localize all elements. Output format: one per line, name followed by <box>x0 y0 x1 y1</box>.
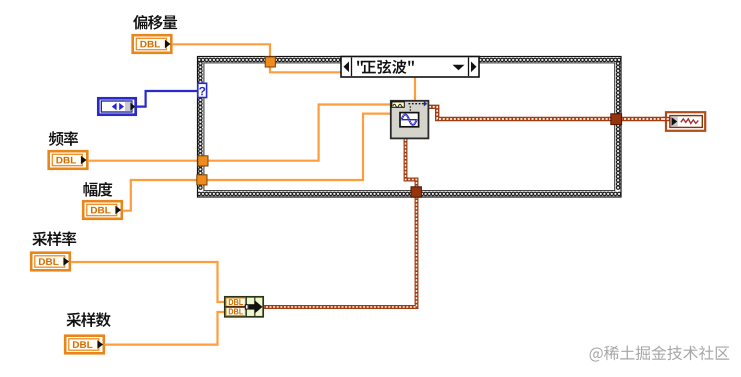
case structure border <box>197 56 622 198</box>
control 采样数 DBL <box>65 336 104 354</box>
wire 采样率 to bundle input <box>71 262 226 302</box>
case selector text "正弦波" <box>357 60 414 74</box>
control 幅度 DBL <box>83 201 122 219</box>
case selector label frame <box>341 57 479 78</box>
wire cluster bundle output to VI sampling-info input <box>264 139 417 307</box>
label 偏移量 <box>133 15 177 30</box>
wire waveform VI output to indicator <box>429 107 666 119</box>
control 偏移量 DBL <box>133 35 172 53</box>
label 采样数 <box>66 312 110 327</box>
tunnel 频率 (left border) <box>198 156 208 166</box>
wire 幅度 to left tunnel then to VI input <box>123 114 391 211</box>
label 幅度 <box>83 182 112 197</box>
label 频率 <box>49 131 78 146</box>
wire enum to case selector ? <box>137 91 198 107</box>
indicator waveform output <box>663 112 705 131</box>
tunnel 偏移量 (top border) <box>265 57 275 67</box>
label 采样率 <box>32 231 76 246</box>
tunnel 幅度 (left border) <box>197 175 207 185</box>
wire 采样数 to bundle input <box>105 312 226 345</box>
wire 频率 to left tunnel then to VI input <box>88 105 390 161</box>
control 频率 DBL <box>49 151 88 169</box>
VI sine signal generator <box>391 101 429 139</box>
bundle node (sample rate + samples) <box>225 297 263 317</box>
case selector terminal ? <box>198 83 207 97</box>
control 采样率 DBL <box>31 253 70 271</box>
control enum (signal type selector) <box>98 98 135 114</box>
watermark @稀土掘金技术社区 <box>590 345 730 361</box>
tunnel waveform (right border) <box>611 114 622 125</box>
wire 偏移量 to top tunnel then down to VI top <box>172 44 415 100</box>
tunnel cluster (bottom border) <box>411 187 421 197</box>
